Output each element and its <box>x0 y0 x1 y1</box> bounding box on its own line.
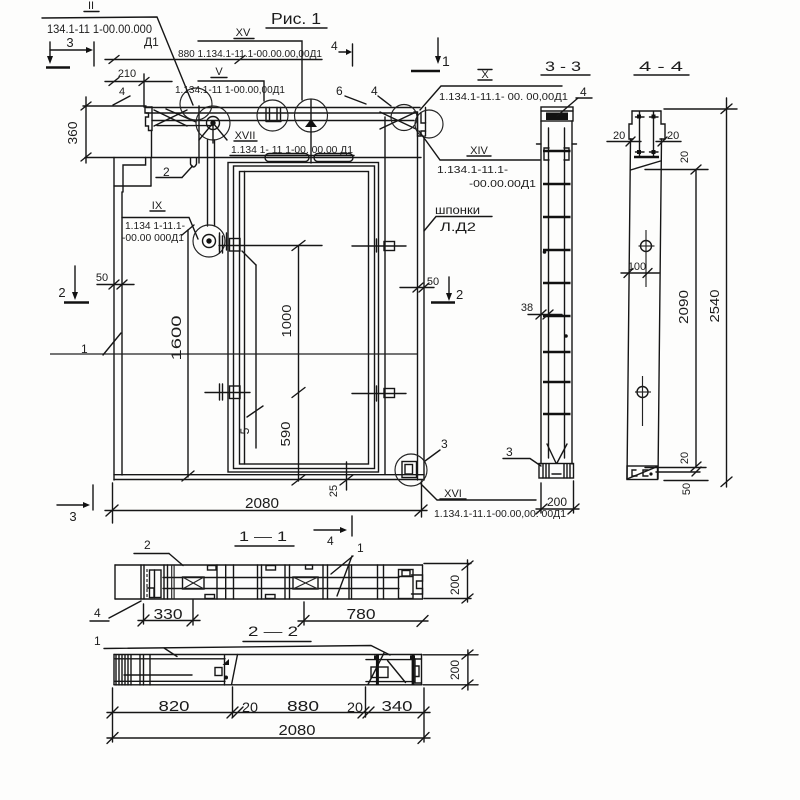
door leaf rect <box>234 166 375 469</box>
svg-text:3: 3 <box>66 35 73 50</box>
3-3 body <box>541 121 572 464</box>
svg-text:50: 50 <box>681 483 693 495</box>
svg-text:25: 25 <box>328 485 340 497</box>
panel right wall <box>385 113 424 480</box>
svg-text:1: 1 <box>94 634 101 648</box>
svg-text:1: 1 <box>442 53 450 69</box>
panel top chord thick bottom line <box>85 157 421 159</box>
3-3 dimension 200 <box>536 481 579 514</box>
label XIV <box>419 131 540 190</box>
top chord right end cap <box>414 108 426 137</box>
svg-text:XIV: XIV <box>470 145 488 157</box>
svg-text:2: 2 <box>58 285 65 300</box>
dimension 880 + doc number <box>105 48 322 64</box>
3-3 rungs <box>543 151 571 414</box>
svg-text:880: 880 <box>287 698 319 715</box>
4-4 dimension 20 bottom <box>645 452 706 476</box>
svg-text:200: 200 <box>448 575 462 595</box>
door inner rect <box>240 172 369 465</box>
label IX <box>150 200 165 212</box>
4-4 dimension 2540 <box>664 98 737 487</box>
svg-text:820: 820 <box>159 698 190 715</box>
2-2 left cut diagonal <box>232 655 238 685</box>
section marker 1 top <box>411 38 450 71</box>
svg-text:2 — 2: 2 — 2 <box>248 623 298 639</box>
title 1-1 <box>235 528 294 546</box>
section marker 2 left <box>58 266 89 303</box>
4-4 dimension 20 left <box>607 130 641 146</box>
key slot pills <box>265 154 353 162</box>
svg-text:Д1: Д1 <box>144 35 159 49</box>
dimension 25 <box>328 462 353 497</box>
dimension 360 <box>65 97 91 163</box>
3-3 label 3 <box>503 445 541 466</box>
dimension 2080 main <box>105 481 427 523</box>
centerline 1 <box>50 333 417 356</box>
callout circle D <box>391 105 417 131</box>
4-4 hole bottom <box>635 376 651 426</box>
2-2 dimension 2080 <box>107 722 430 744</box>
svg-text:1.134 1-11.1-: 1.134 1-11.1- <box>125 220 185 232</box>
bottom fitting right <box>352 386 406 401</box>
extension line top-left <box>83 105 146 107</box>
svg-text:-00.00 000Д1: -00.00 000Д1 <box>122 232 184 244</box>
dimension 210 <box>105 68 172 107</box>
section marker 2 right <box>431 277 463 303</box>
4-4 dimension 100 <box>621 261 659 278</box>
panel bottom <box>114 475 424 480</box>
diagonal braces left <box>154 109 196 126</box>
hinge rod <box>208 140 215 226</box>
3-3 dimension 38 <box>521 302 562 319</box>
chord inner short lines <box>157 125 213 127</box>
section marker 3 top-left <box>46 35 94 68</box>
3-3 cap <box>541 107 573 121</box>
2-2 right cut diagonal <box>368 653 384 685</box>
svg-text:20: 20 <box>242 699 258 715</box>
svg-text:3 - 3: 3 - 3 <box>545 58 581 74</box>
label 2 at 1-1 <box>134 538 183 566</box>
svg-text:20: 20 <box>679 151 691 163</box>
svg-text:4: 4 <box>327 534 334 548</box>
svg-text:3: 3 <box>441 437 448 451</box>
3-3 leader 4 <box>557 85 592 116</box>
svg-text:20: 20 <box>667 130 679 142</box>
svg-text:880 1.134.1-11.1-00.00.00,00Д1: 880 1.134.1-11.1-00.00.00,00Д1 <box>178 48 322 60</box>
label шпонки <box>424 203 492 234</box>
4-4 cap <box>629 111 665 157</box>
svg-text:XVI: XVI <box>444 488 462 500</box>
door inner left line <box>244 172 246 465</box>
label XVI <box>421 484 566 520</box>
diagonal braces right <box>380 112 416 129</box>
section marker 4 top <box>331 39 353 66</box>
label X <box>478 69 492 81</box>
svg-text:V: V <box>215 66 223 78</box>
panel top chord lines <box>146 108 420 121</box>
3-3 dots <box>543 250 547 254</box>
leader bracket X <box>420 86 562 110</box>
section marker 3 bottom-left <box>57 485 93 524</box>
bottom fitting left <box>205 384 250 400</box>
corner detail circle XVI <box>395 454 427 486</box>
svg-text:4 - 4: 4 - 4 <box>639 58 683 74</box>
svg-text:-00.00.00Д1: -00.00.00Д1 <box>469 178 536 190</box>
svg-text:1.134.1-11.1-00.00,00: 00Д1: 1.134.1-11.1-00.00,00: 00Д1 <box>434 508 566 520</box>
svg-text:4: 4 <box>94 606 101 620</box>
svg-text:2090: 2090 <box>676 290 691 324</box>
4-4 hole top <box>639 230 655 287</box>
label 5 leader <box>238 265 263 448</box>
4-4 dimension 20 right <box>656 130 681 146</box>
dimension 50 right <box>400 276 439 292</box>
svg-text:200: 200 <box>547 495 567 509</box>
door opening outer rect <box>228 163 379 473</box>
2-2 inner chords left <box>115 659 225 682</box>
svg-text:1.134.1-11 1-00.00,00Д1: 1.134.1-11 1-00.00,00Д1 <box>175 84 285 96</box>
hinge detail middle <box>193 225 227 257</box>
leader 6 <box>336 84 366 104</box>
dimension 1600 <box>168 225 194 481</box>
4-4 dimension 20 vertical top <box>645 151 708 174</box>
3-3 side keys <box>537 144 577 160</box>
dimension 50 left <box>96 272 134 289</box>
leader bracket V <box>198 81 264 101</box>
svg-text:4: 4 <box>580 85 587 99</box>
svg-text:3: 3 <box>506 445 513 459</box>
dimension 1000 / 590 vertical <box>278 241 305 486</box>
4-4 dimension 2090 <box>676 170 701 472</box>
svg-text:XVII: XVII <box>235 130 256 142</box>
2-2 dimension 200 <box>423 650 478 690</box>
label V <box>211 66 227 78</box>
4-4 dimension 50 bottom <box>664 481 708 496</box>
2-2 right block <box>366 655 422 685</box>
svg-text:134.1-11 1-00.00.000: 134.1-11 1-00.00.000 <box>47 24 152 36</box>
title 3-3 <box>541 58 590 75</box>
svg-text:340: 340 <box>382 698 413 715</box>
4-4 bottom box <box>627 466 658 480</box>
callout circle B with keys <box>257 100 288 131</box>
label 1 at 2-2 <box>94 634 390 657</box>
panel left wall <box>114 158 151 481</box>
svg-text:1: 1 <box>81 342 88 356</box>
3-3 legs <box>547 444 567 463</box>
1-1 dimension 780 <box>298 602 428 627</box>
title 4-4 <box>634 58 689 75</box>
mid fitting right <box>352 239 406 252</box>
leader bracket XV <box>198 41 302 100</box>
2-2 element outline <box>114 655 422 685</box>
1-1 dimension 200 <box>424 560 473 603</box>
svg-text:50: 50 <box>427 276 439 288</box>
svg-text:6: 6 <box>336 84 343 98</box>
svg-text:2: 2 <box>144 538 151 552</box>
callout circle C with anchor <box>295 99 328 163</box>
leader from fitting to 5 line <box>242 251 256 265</box>
svg-text:2: 2 <box>456 287 463 302</box>
callout circle E <box>415 110 443 138</box>
svg-text:шпонки: шпонки <box>435 203 480 217</box>
svg-text:1000: 1000 <box>279 305 294 338</box>
1-1 crossed box 1 <box>183 577 205 589</box>
1-1 crossed box 2 <box>293 577 318 589</box>
svg-text:2540: 2540 <box>707 290 722 323</box>
svg-text:200: 200 <box>448 660 462 680</box>
2-2 left fitting <box>215 655 229 685</box>
2-2 dimension row 820 20 880 20 340 <box>107 687 430 742</box>
1-1 lugs <box>205 565 313 599</box>
svg-text:4: 4 <box>119 86 125 98</box>
section marker 4 at 1-1 <box>314 516 352 548</box>
2-2 left anchors comb <box>116 655 150 685</box>
4-4 body <box>627 139 662 479</box>
1-1 posts <box>164 565 384 599</box>
label 3 at corner <box>425 437 448 461</box>
1-1 element outline <box>115 565 423 599</box>
svg-text:20: 20 <box>613 130 625 142</box>
title 2-2 <box>243 623 311 642</box>
svg-text:Л.Д2: Л.Д2 <box>440 220 476 234</box>
svg-text:3: 3 <box>69 509 76 524</box>
label 1 at 1-1 <box>331 541 364 596</box>
title Рис. 1 <box>266 11 327 28</box>
label 2 hook <box>156 158 197 179</box>
leader bracket IX <box>122 218 198 240</box>
svg-text:20: 20 <box>679 452 691 464</box>
1-1 dimension 330 <box>138 600 200 626</box>
1-1 right cap <box>399 570 423 599</box>
svg-text:1600: 1600 <box>168 315 184 360</box>
svg-text:2080: 2080 <box>245 495 279 512</box>
inner vertical at left joint <box>198 106 200 163</box>
svg-text:38: 38 <box>521 302 533 314</box>
svg-text:1: 1 <box>357 541 364 555</box>
svg-text:IX: IX <box>152 200 163 212</box>
1-1 left cap <box>141 565 161 599</box>
svg-text:1.134.1-11.1- 00. 00,00Д1: 1.134.1-11.1- 00. 00,00Д1 <box>439 91 568 103</box>
label XV <box>234 27 254 39</box>
svg-text:4: 4 <box>371 84 378 98</box>
top chord left end cap <box>145 107 152 158</box>
leader 4 right <box>371 84 391 106</box>
1-1 inner chords <box>163 578 399 589</box>
svg-text:50: 50 <box>96 272 108 284</box>
callout circle over left joint <box>180 88 212 120</box>
doc number for XVII <box>230 144 354 156</box>
svg-text:4: 4 <box>331 39 338 53</box>
svg-text:X: X <box>481 69 489 81</box>
leader from label II <box>42 17 193 105</box>
svg-text:II: II <box>88 0 94 12</box>
1-1 label 4 <box>90 601 141 621</box>
detail mark 4 <box>113 86 130 105</box>
svg-text:XV: XV <box>236 27 251 39</box>
3-3 shoe <box>539 464 574 479</box>
svg-text:1.134.1-11.1-: 1.134.1-11.1- <box>437 164 509 176</box>
svg-text:Рис. 1: Рис. 1 <box>271 11 321 28</box>
svg-text:360: 360 <box>65 122 80 145</box>
svg-text:2080: 2080 <box>279 722 316 739</box>
mid fitting left <box>219 236 322 253</box>
label XVII <box>234 130 257 142</box>
svg-text:1 — 1: 1 — 1 <box>239 528 287 544</box>
svg-text:210: 210 <box>118 68 136 80</box>
hinge detail top <box>196 106 230 143</box>
svg-text:5: 5 <box>238 427 252 434</box>
svg-text:20: 20 <box>347 699 363 715</box>
label II <box>84 0 99 12</box>
svg-text:590: 590 <box>278 422 293 447</box>
